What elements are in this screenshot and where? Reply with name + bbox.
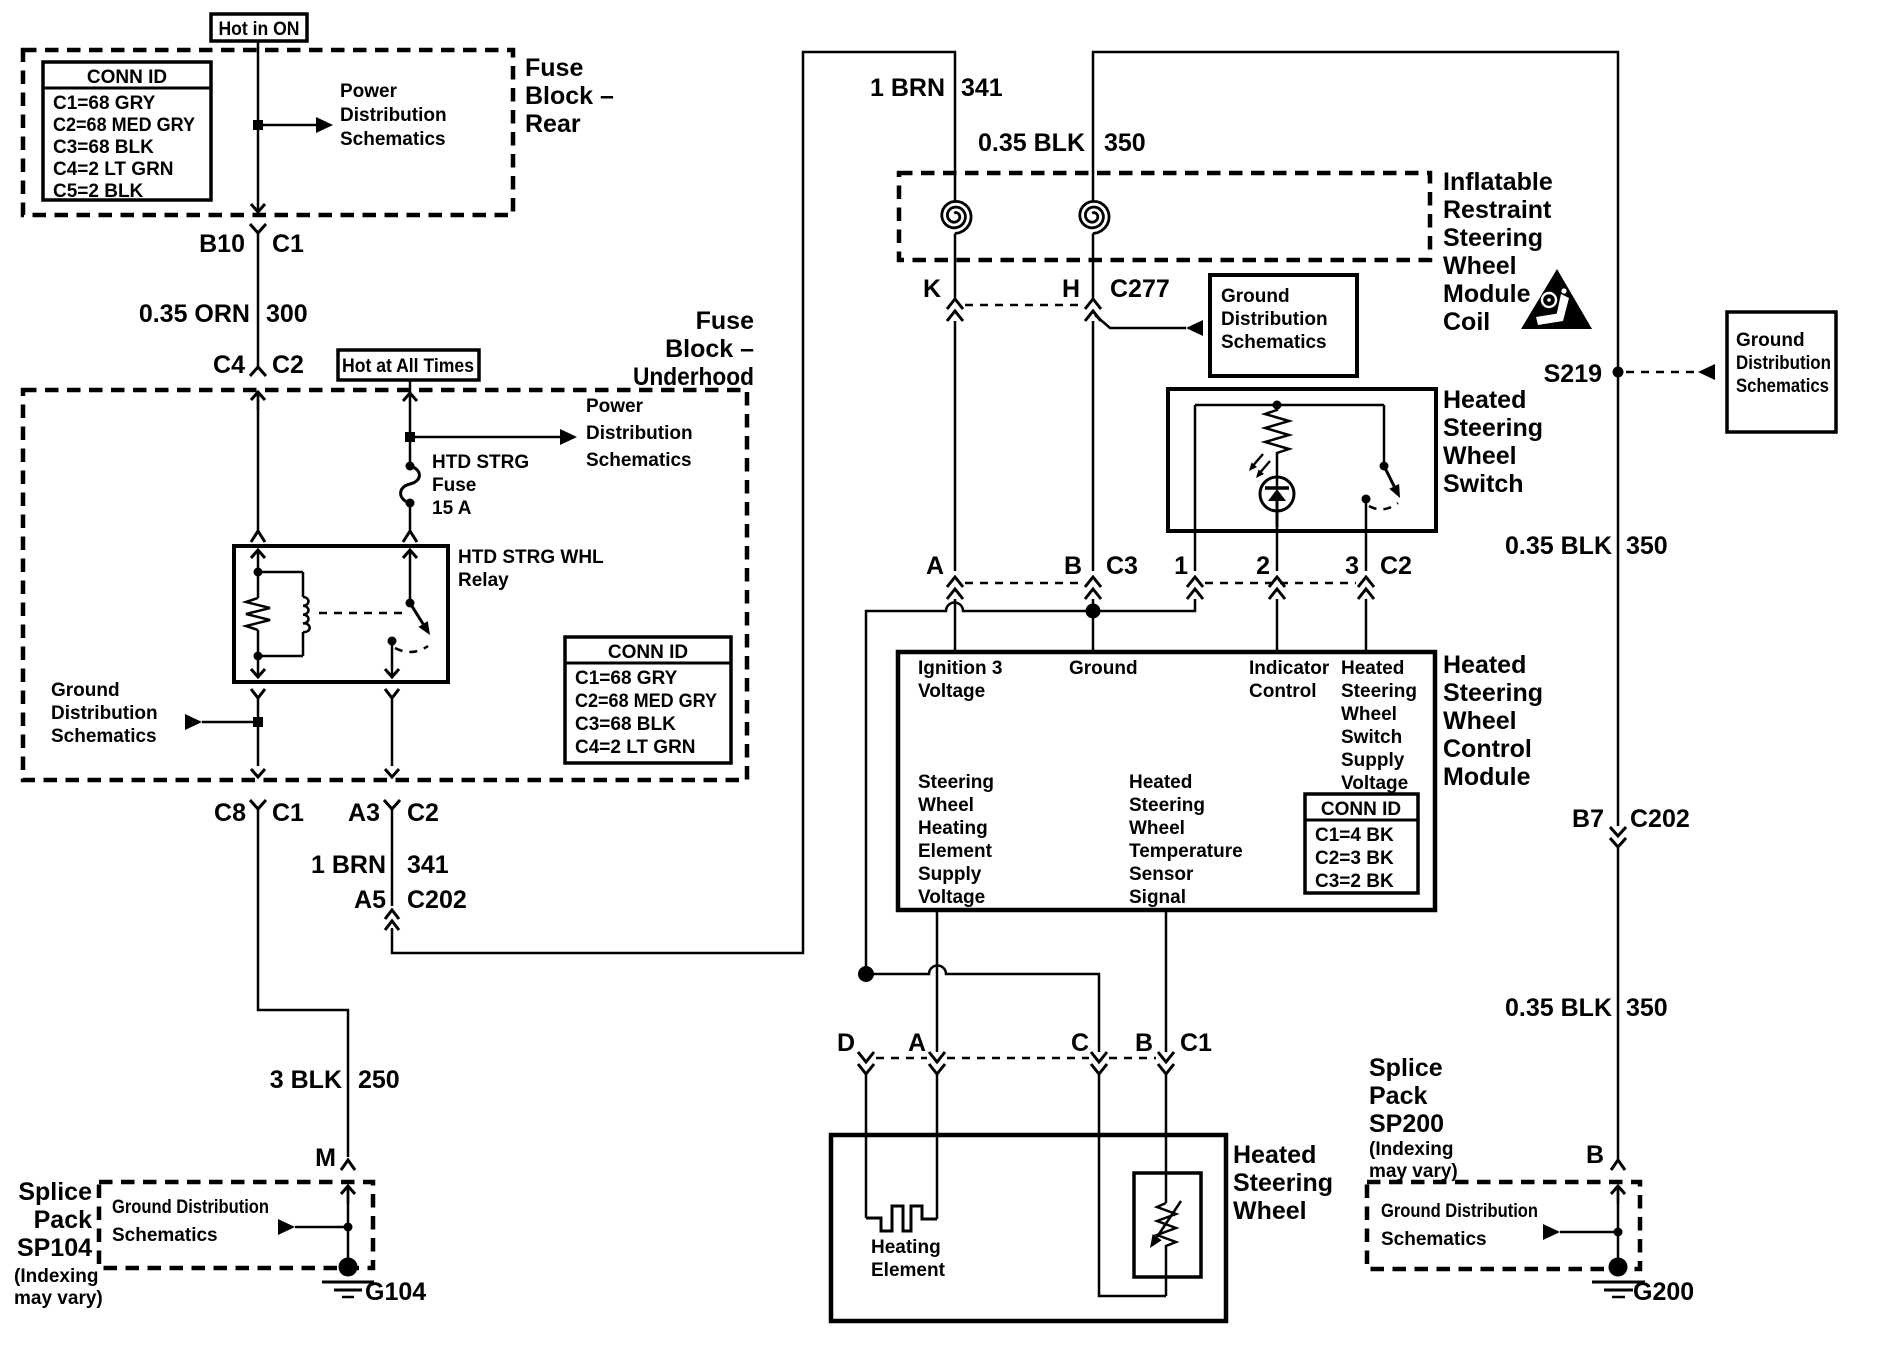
- svg-text:Fuse: Fuse: [525, 54, 583, 82]
- switch common dot: [1380, 462, 1389, 471]
- svg-text:0.35 ORN: 0.35 ORN: [139, 300, 250, 328]
- connector B (SP200): [1586, 1141, 1625, 1170]
- label Splice Pack SP200: [1369, 1054, 1458, 1182]
- svg-text:15 A: 15 A: [432, 498, 472, 519]
- svg-text:Heating: Heating: [871, 1237, 941, 1258]
- svg-text:Heated: Heated: [1443, 651, 1526, 679]
- wire temperature sensor signal from module: [1165, 910, 1168, 1052]
- svg-text:0.35 BLK: 0.35 BLK: [1505, 994, 1612, 1022]
- fuse block rear dashed outline: [23, 50, 513, 215]
- relay switch dashed travel arc: [395, 646, 428, 652]
- relay HTD STRG WHL box: [234, 546, 448, 682]
- svg-text:Ground: Ground: [1736, 330, 1805, 351]
- junction dot power distribution branch (underhood): [405, 432, 415, 442]
- svg-text:341: 341: [407, 851, 449, 879]
- switch ground wire pin 1: [1194, 527, 1197, 571]
- svg-text:Element: Element: [871, 1260, 946, 1281]
- svg-text:Module: Module: [1443, 763, 1531, 791]
- svg-text:Heating: Heating: [918, 818, 988, 839]
- switch output wire pin 3: [1365, 499, 1368, 571]
- dashed connector link 1 to 3: [1205, 582, 1356, 585]
- connector 2 chevrons: [1269, 577, 1285, 599]
- svg-text:300: 300: [266, 300, 308, 328]
- svg-text:Distribution: Distribution: [1221, 309, 1328, 330]
- arrow from ground distribution reference (SP200): [1543, 1224, 1623, 1240]
- svg-text:Switch: Switch: [1341, 727, 1402, 748]
- svg-text:C1=4 BK: C1=4 BK: [1315, 825, 1394, 846]
- CONN ID table (fuse block rear): [43, 62, 211, 202]
- connector C4/C2: [213, 351, 304, 379]
- heated steering wheel control module box: [898, 652, 1435, 910]
- label Hot in ON box: [211, 14, 307, 41]
- ground distribution schematics box (C277): [1210, 275, 1357, 376]
- arrowhead wire enters SP104: [341, 1186, 355, 1204]
- indicator LED: [1260, 477, 1294, 527]
- arrowhead relay ground exits underhood box: [251, 769, 265, 777]
- relay coil top junction dot: [254, 568, 263, 577]
- svg-text:C2: C2: [407, 799, 439, 827]
- svg-text:C277: C277: [1110, 275, 1170, 303]
- connector A3/C2: [348, 799, 439, 827]
- relay coil bottom junction dot: [254, 652, 263, 661]
- switch internal supply bus: [1195, 405, 1384, 527]
- svg-text:C2=68 MED GRY: C2=68 MED GRY: [575, 691, 717, 712]
- svg-text:Pack: Pack: [1369, 1082, 1427, 1110]
- wire fuse to relay: [409, 503, 412, 530]
- svg-text:Heated: Heated: [1233, 1141, 1316, 1169]
- label Hot at All Times box: [338, 350, 479, 380]
- svg-text:1: 1: [1174, 552, 1188, 580]
- svg-text:C202: C202: [1630, 805, 1690, 833]
- svg-text:(Indexing: (Indexing: [14, 1266, 98, 1287]
- connector B chevrons: [1085, 577, 1101, 599]
- svg-text:Schematics: Schematics: [1221, 332, 1327, 353]
- svg-text:C1: C1: [272, 799, 304, 827]
- svg-text:C8: C8: [214, 799, 246, 827]
- temperature sensor thermistor: [1150, 1201, 1181, 1296]
- wire H to ground distribution reference: [1095, 315, 1186, 328]
- svg-text:Ground: Ground: [51, 680, 120, 701]
- svg-text:350: 350: [1626, 532, 1668, 560]
- svg-text:Wheel: Wheel: [1129, 818, 1185, 839]
- module connector row labels A B C3: [926, 552, 1138, 580]
- svg-text:HTD STRG WHL: HTD STRG WHL: [458, 547, 604, 568]
- dashed wire S219 to ground distribution reference: [1626, 371, 1698, 374]
- svg-text:Steering: Steering: [1233, 1169, 1333, 1197]
- svg-text:C4=2 LT GRN: C4=2 LT GRN: [53, 159, 174, 180]
- svg-text:C1=68 GRY: C1=68 GRY: [53, 93, 156, 114]
- heated steering wheel box: [831, 1135, 1226, 1321]
- svg-text:Schematics: Schematics: [51, 726, 157, 747]
- svg-text:0.35 BLK: 0.35 BLK: [978, 129, 1085, 157]
- label Power Distribution Schematics (rear): [340, 81, 447, 150]
- svg-text:C3=68 BLK: C3=68 BLK: [575, 714, 676, 735]
- svg-text:350: 350: [1104, 129, 1146, 157]
- svg-text:Wheel: Wheel: [1443, 707, 1517, 735]
- label Heated Steering Wheel Control Module: [1443, 651, 1543, 791]
- svg-text:Splice: Splice: [1369, 1054, 1443, 1082]
- label 0.35 BLK 350 (top): [978, 129, 1146, 157]
- svg-text:Block –: Block –: [665, 335, 754, 363]
- module pin label Heated Steering Wheel Switch Supply Voltage: [1341, 658, 1417, 794]
- svg-text:Module: Module: [1443, 280, 1531, 308]
- wire ground loop to C pin with hop over A wire: [866, 966, 1099, 1053]
- label Heated Steering Wheel Switch: [1443, 386, 1543, 498]
- svg-text:C3=2 BK: C3=2 BK: [1315, 871, 1394, 892]
- svg-text:C2=68 MED GRY: C2=68 MED GRY: [53, 115, 195, 136]
- svg-text:CONN ID: CONN ID: [608, 642, 688, 663]
- switch internal bus junction dot: [1273, 401, 1282, 410]
- LED emission arrows: [1249, 454, 1270, 478]
- svg-text:Heated: Heated: [1443, 386, 1526, 414]
- relay actuation dashed link: [319, 612, 404, 615]
- relay bottom left pin fork: [251, 689, 265, 766]
- svg-text:Temperature: Temperature: [1129, 841, 1243, 862]
- svg-text:B: B: [1135, 1029, 1153, 1057]
- svg-text:Relay: Relay: [458, 570, 509, 591]
- label 0.35 BLK 350 (right lower): [1505, 994, 1668, 1022]
- svg-text:250: 250: [358, 1066, 400, 1094]
- arrow to ground distribution schematics (C277): [1186, 320, 1203, 336]
- module pin label Heated Steering Wheel Temperature Sensor Signal: [1129, 772, 1243, 908]
- module pin label Ignition 3 Voltage: [918, 658, 1002, 702]
- svg-text:Wheel: Wheel: [1233, 1197, 1307, 1225]
- svg-text:Ignition 3: Ignition 3: [918, 658, 1002, 679]
- svg-text:G104: G104: [365, 1278, 426, 1306]
- label Heated Steering Wheel: [1233, 1141, 1333, 1225]
- relay switch NO contact dot: [388, 637, 397, 646]
- relay coil pin arrow (top left inside): [251, 550, 265, 572]
- svg-text:Fuse: Fuse: [432, 475, 476, 496]
- svg-text:C5=2 BLK: C5=2 BLK: [53, 181, 144, 202]
- label Ground Distribution Schematics (SP200): [1381, 1201, 1538, 1250]
- svg-text:C2: C2: [1380, 552, 1412, 580]
- label HTD STRG Fuse 15 A: [432, 452, 529, 519]
- arrowhead wire exits fuse block rear: [251, 204, 265, 212]
- wire Hot in ON feed down through fuse block rear: [257, 41, 260, 211]
- svg-text:C4=2 LT GRN: C4=2 LT GRN: [575, 737, 696, 758]
- CONN ID table (fuse block underhood): [565, 637, 731, 763]
- arrow to power distribution schematics: [316, 117, 333, 133]
- svg-text:Power: Power: [340, 81, 398, 102]
- svg-text:B: B: [1586, 1141, 1604, 1169]
- switch blade: [1384, 466, 1400, 498]
- svg-text:(Indexing: (Indexing: [1369, 1139, 1453, 1160]
- wire C202 to SP200: [1617, 848, 1620, 1160]
- svg-text:Steering: Steering: [1443, 414, 1543, 442]
- module connector row labels 1 2 3 C2: [1174, 552, 1412, 580]
- connector fuse output at relay (right pin chevron): [403, 531, 417, 542]
- wire ground riser 0.35 BLK 350: [1093, 52, 1618, 826]
- relay switch common dot: [406, 599, 415, 608]
- svg-text:K: K: [923, 275, 941, 303]
- svg-text:Steering: Steering: [1341, 681, 1417, 702]
- svg-text:Steering: Steering: [1443, 224, 1543, 252]
- svg-text:3: 3: [1345, 552, 1359, 580]
- svg-text:Hot at All Times: Hot at All Times: [342, 356, 474, 377]
- connector A chevrons: [947, 577, 963, 599]
- wire into G200: [1617, 1186, 1620, 1261]
- svg-text:Ground Distribution: Ground Distribution: [112, 1197, 269, 1218]
- wire D into wheel: [865, 1074, 868, 1218]
- connector C8/C1: [214, 799, 304, 827]
- connector D chevrons: [858, 1052, 874, 1074]
- svg-text:Inflatable: Inflatable: [1443, 168, 1553, 196]
- label Inflatable Restraint Steering Wheel Module Coil: [1443, 168, 1553, 336]
- svg-text:Supply: Supply: [918, 864, 982, 885]
- label 0.35 ORN 300: [139, 300, 308, 328]
- relay coil ground arrow (bottom left inside): [251, 656, 265, 677]
- junction dot power distribution branch: [253, 120, 263, 130]
- svg-text:A3: A3: [348, 799, 380, 827]
- svg-text:Pack: Pack: [34, 1206, 92, 1234]
- svg-text:Control: Control: [1443, 735, 1532, 763]
- ground distribution schematics box (S219): [1727, 312, 1836, 432]
- svg-text:Voltage: Voltage: [1341, 773, 1408, 794]
- connector C chevrons: [1091, 1052, 1107, 1074]
- wire 3 into module: [1365, 599, 1368, 652]
- svg-text:Fuse: Fuse: [696, 307, 754, 335]
- svg-text:B10: B10: [199, 230, 245, 258]
- svg-text:C2=3 BK: C2=3 BK: [1315, 848, 1394, 869]
- svg-text:Element: Element: [918, 841, 993, 862]
- wire 2 into module: [1276, 599, 1279, 652]
- svg-text:C4: C4: [213, 351, 245, 379]
- svg-text:0.35 BLK: 0.35 BLK: [1505, 532, 1612, 560]
- dashed connector link K to H: [965, 304, 1083, 307]
- svg-text:Switch: Switch: [1443, 470, 1524, 498]
- dashed connector link A to B: [965, 582, 1083, 585]
- svg-text:Voltage: Voltage: [918, 681, 985, 702]
- svg-text:Control: Control: [1249, 681, 1317, 702]
- svg-text:C2: C2: [272, 351, 304, 379]
- temperature sensor box: [1134, 1173, 1201, 1277]
- labels D A C B C1: [837, 1029, 1212, 1057]
- connector B chevrons (wheel): [1158, 1052, 1174, 1074]
- splice pack SP104 dashed outline: [99, 1182, 373, 1268]
- svg-text:S219: S219: [1544, 360, 1602, 388]
- wire pin1 ground loop with hop over A: [866, 599, 1195, 974]
- relay resistor: [246, 572, 270, 656]
- svg-text:Wheel: Wheel: [1443, 442, 1517, 470]
- label HTD STRG WHL Relay: [458, 547, 604, 591]
- label Ground Distribution Schematics (SP104): [112, 1197, 269, 1246]
- svg-text:Distribution: Distribution: [1736, 353, 1831, 374]
- fuse block underhood dashed outline: [23, 390, 747, 780]
- relay switch feed arrow (top right inside): [403, 550, 417, 603]
- label Fuse Block Rear: [525, 54, 614, 138]
- label 0.35 BLK 350 (right upper): [1505, 532, 1668, 560]
- wire A into wheel: [936, 1074, 939, 1219]
- wire 3 BLK 250 (C8 to G104): [258, 809, 348, 1157]
- svg-text:D: D: [837, 1029, 855, 1057]
- ground G200: [1592, 1258, 1694, 1307]
- svg-text:Ground Distribution: Ground Distribution: [1381, 1201, 1538, 1222]
- svg-text:A: A: [926, 552, 944, 580]
- svg-text:Distribution: Distribution: [586, 423, 693, 444]
- svg-text:may vary): may vary): [14, 1288, 103, 1309]
- connector B10/C1: [199, 224, 304, 258]
- svg-text:Wheel: Wheel: [1443, 252, 1517, 280]
- wire 1 BRN 341 (A3 to C202): [391, 809, 394, 906]
- svg-text:Distribution: Distribution: [340, 105, 447, 126]
- warning triangle airbag icon: [1521, 269, 1592, 329]
- svg-text:Schematics: Schematics: [586, 450, 692, 471]
- svg-text:Wheel: Wheel: [918, 795, 974, 816]
- svg-text:C1: C1: [1180, 1029, 1212, 1057]
- svg-text:Steering: Steering: [1129, 795, 1205, 816]
- svg-text:G200: G200: [1633, 1278, 1694, 1306]
- module pin label Steering Wheel Heating Element Supply Voltage: [918, 772, 994, 908]
- clockspring coil left (ignition): [942, 201, 971, 299]
- arrowhead relay output exits underhood box: [385, 769, 399, 777]
- label 1 BRN 341 (top): [870, 74, 1003, 102]
- label Ground Distribution Schematics (underhood): [51, 680, 158, 747]
- connector K: [923, 275, 963, 321]
- relay bottom right pin fork: [385, 689, 399, 766]
- switch indicator wire pin 2: [1276, 527, 1279, 571]
- arrow from ground distribution reference (underhood): [185, 714, 263, 730]
- switch contact feed: [1383, 405, 1386, 462]
- svg-text:Ground: Ground: [1069, 658, 1138, 679]
- connector relay left pin chevron: [251, 531, 265, 542]
- wire hot at all times feed: [409, 380, 412, 466]
- svg-text:Ground: Ground: [1221, 286, 1290, 307]
- label 3 BLK 250: [270, 1066, 400, 1094]
- svg-text:Steering: Steering: [1443, 679, 1543, 707]
- svg-text:Schematics: Schematics: [340, 129, 446, 150]
- svg-text:SP200: SP200: [1369, 1110, 1444, 1138]
- svg-text:Heated: Heated: [1129, 772, 1192, 793]
- fuse HTD STRG 15A: [401, 462, 420, 508]
- arrow to ground distribution schematics (S219): [1698, 364, 1715, 380]
- svg-text:M: M: [315, 1144, 336, 1172]
- wire K to module connector A: [954, 321, 957, 571]
- svg-text:Indicator: Indicator: [1249, 658, 1330, 679]
- relay switch blade: [410, 603, 430, 635]
- label 1 BRN 341 (left): [311, 851, 449, 879]
- wire ignition feed C202 to coil (1 BRN 341 riser): [392, 52, 955, 953]
- svg-text:CONN ID: CONN ID: [1321, 799, 1401, 820]
- relay output arrow (bottom right inside): [385, 641, 399, 677]
- arrowhead hot feed enters underhood box: [403, 393, 417, 401]
- svg-text:2: 2: [1256, 552, 1270, 580]
- svg-text:C: C: [1071, 1029, 1089, 1057]
- svg-text:Supply: Supply: [1341, 750, 1405, 771]
- relay coil winding: [258, 572, 310, 656]
- svg-text:1 BRN: 1 BRN: [311, 851, 386, 879]
- heated steering wheel switch box: [1168, 389, 1436, 531]
- clockspring coil right (ground): [1080, 201, 1109, 299]
- wire H to module connector B: [1092, 321, 1095, 571]
- svg-text:Schematics: Schematics: [1381, 1229, 1487, 1250]
- svg-text:Splice: Splice: [18, 1178, 92, 1206]
- wire 0.35 ORN 300: [257, 233, 260, 367]
- svg-text:Distribution: Distribution: [51, 703, 158, 724]
- connector H / C277: [1062, 275, 1170, 321]
- connector B7/C202: [1572, 805, 1690, 847]
- svg-text:C202: C202: [407, 886, 467, 914]
- svg-text:CONN ID: CONN ID: [87, 67, 167, 88]
- svg-text:H: H: [1062, 275, 1080, 303]
- wire B into module: [1092, 599, 1095, 652]
- connector 1 chevrons: [1187, 577, 1203, 599]
- label Power Distribution Schematics (underhood): [586, 396, 693, 471]
- svg-text:1 BRN: 1 BRN: [870, 74, 945, 102]
- svg-text:Rear: Rear: [525, 110, 581, 138]
- label Heating Element: [871, 1237, 946, 1281]
- svg-text:Block –: Block –: [525, 82, 614, 110]
- wire relay left pin from C4 feed: [257, 392, 260, 530]
- label Splice Pack SP104: [14, 1178, 103, 1309]
- arrow from ground distribution reference (SP104): [278, 1219, 353, 1235]
- svg-text:C3=68 BLK: C3=68 BLK: [53, 137, 154, 158]
- svg-text:Power: Power: [586, 396, 644, 417]
- connector A5/C202: [354, 886, 467, 930]
- switch NO contact dot: [1362, 495, 1371, 504]
- wire branch to power distribution reference (underhood): [410, 436, 560, 439]
- svg-text:350: 350: [1626, 994, 1668, 1022]
- connector M: [315, 1144, 355, 1172]
- switch dashed travel arc: [1369, 503, 1398, 509]
- junction dot ground loop at B: [1086, 604, 1101, 619]
- splice pack SP200 dashed outline: [1367, 1182, 1640, 1269]
- svg-text:B: B: [1064, 552, 1082, 580]
- svg-text:SP104: SP104: [17, 1234, 92, 1262]
- dashed connector link D to B (wheel): [876, 1057, 1156, 1060]
- wire heating element supply from module: [936, 910, 939, 1052]
- inflatable restraint coil dashed outline: [899, 173, 1430, 260]
- ground G104: [322, 1258, 426, 1307]
- svg-text:B7: B7: [1572, 805, 1604, 833]
- svg-text:C3: C3: [1106, 552, 1138, 580]
- CONN ID table (module): [1305, 794, 1418, 893]
- svg-text:C1=68 GRY: C1=68 GRY: [575, 668, 678, 689]
- svg-text:Schematics: Schematics: [1736, 376, 1829, 397]
- arrowhead wire enters SP200: [1611, 1186, 1625, 1204]
- svg-text:3 BLK: 3 BLK: [270, 1066, 342, 1094]
- svg-text:HTD STRG: HTD STRG: [432, 452, 529, 473]
- svg-text:Hot in ON: Hot in ON: [219, 19, 300, 40]
- junction dot ground loop to wheel: [858, 966, 874, 982]
- svg-text:C1: C1: [272, 230, 304, 258]
- svg-text:Voltage: Voltage: [918, 887, 985, 908]
- svg-text:Restraint: Restraint: [1443, 196, 1552, 224]
- svg-text:Steering: Steering: [918, 772, 994, 793]
- connector A chevrons (wheel): [929, 1052, 945, 1074]
- svg-text:Heated: Heated: [1341, 658, 1404, 679]
- module pin label Indicator Control: [1249, 658, 1330, 702]
- heating element: [866, 1206, 937, 1231]
- svg-text:Coil: Coil: [1443, 308, 1490, 336]
- svg-text:A5: A5: [354, 886, 386, 914]
- svg-text:341: 341: [961, 74, 1003, 102]
- arrowhead wire enters fuse block underhood: [251, 392, 265, 410]
- arrow to power distribution schematics (underhood): [560, 429, 577, 445]
- label Fuse Block Underhood: [633, 307, 754, 391]
- svg-text:Signal: Signal: [1129, 887, 1186, 908]
- wire A into module: [954, 599, 957, 652]
- wire branch to power distribution reference: [258, 124, 316, 127]
- svg-text:Underhood: Underhood: [633, 363, 754, 391]
- svg-text:Sensor: Sensor: [1129, 864, 1194, 885]
- svg-text:A: A: [908, 1029, 926, 1057]
- wire B into wheel: [1165, 1074, 1168, 1203]
- svg-text:may vary): may vary): [1369, 1161, 1458, 1182]
- svg-text:Schematics: Schematics: [112, 1225, 218, 1246]
- connector 3 chevrons: [1358, 577, 1374, 599]
- indicator resistor: [1265, 405, 1289, 477]
